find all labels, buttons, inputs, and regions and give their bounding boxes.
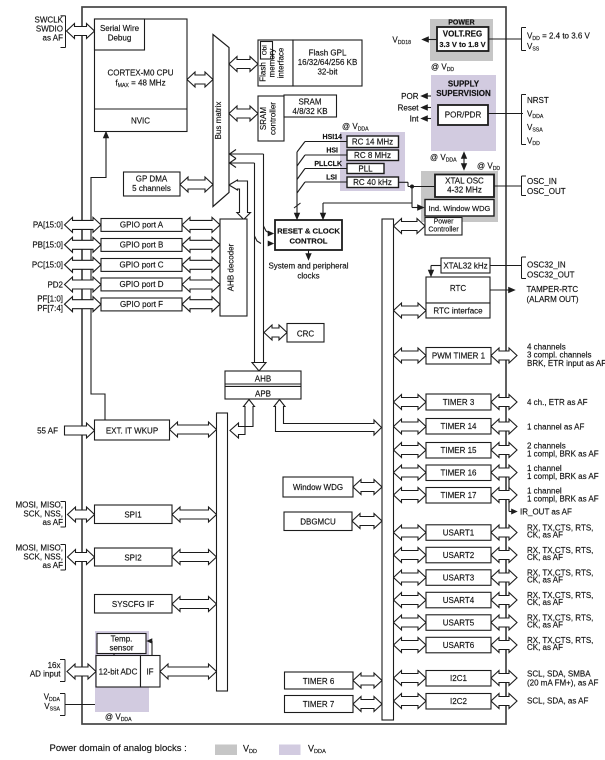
svg-text:SRAM: SRAM [259, 107, 268, 130]
svg-text:Int: Int [410, 114, 420, 123]
svg-text:as AF: as AF [43, 518, 64, 527]
svg-text:IF: IF [146, 667, 153, 676]
svg-text:4 ch., ETR as AF: 4 ch., ETR as AF [527, 398, 588, 407]
svg-text:CK, as AF: CK, as AF [527, 553, 563, 562]
svg-text:XTAL32 kHz: XTAL32 kHz [443, 262, 487, 271]
svg-text:System and peripheral: System and peripheral [268, 261, 348, 270]
svg-text:SYSCFG IF: SYSCFG IF [112, 600, 154, 609]
svg-text:1 compl, BRK as AF: 1 compl, BRK as AF [527, 495, 599, 504]
svg-text:Flash GPL: Flash GPL [309, 48, 347, 57]
svg-text:CK, as AF: CK, as AF [527, 643, 563, 652]
svg-text:USART1: USART1 [443, 528, 475, 537]
svg-text:PD2: PD2 [47, 280, 63, 289]
svg-text:MOSI, MISO,: MOSI, MISO, [15, 500, 63, 509]
svg-text:NVIC: NVIC [131, 117, 150, 126]
svg-text:Serial Wire: Serial Wire [100, 24, 140, 33]
svg-text:USART2: USART2 [443, 551, 475, 560]
svg-text:OSC_IN: OSC_IN [527, 177, 557, 186]
svg-text:PC[15:0]: PC[15:0] [32, 261, 63, 270]
svg-text:AHB: AHB [255, 375, 271, 384]
svg-text:POWER: POWER [448, 20, 474, 27]
svg-text:I2C2: I2C2 [450, 697, 467, 706]
svg-text:Debug: Debug [108, 34, 132, 43]
svg-text:USART5: USART5 [443, 618, 475, 627]
svg-text:as AF: as AF [43, 34, 64, 43]
svg-text:MOSI, MISO,: MOSI, MISO, [15, 543, 63, 552]
svg-text:CORTEX-M0 CPU: CORTEX-M0 CPU [107, 69, 173, 78]
svg-text:GP DMA: GP DMA [136, 175, 168, 184]
svg-text:clocks: clocks [297, 271, 319, 280]
svg-text:controller: controller [269, 102, 278, 135]
svg-text:RC 14 MHz: RC 14 MHz [352, 138, 393, 147]
svg-text:USART3: USART3 [443, 573, 475, 582]
svg-text:3.3 V to 1.8 V: 3.3 V to 1.8 V [439, 40, 485, 49]
svg-text:PF[7:4]: PF[7:4] [37, 304, 63, 313]
svg-text:Window WDG: Window WDG [293, 483, 343, 492]
svg-text:TIMER 6: TIMER 6 [303, 677, 335, 686]
svg-text:5 channels: 5 channels [132, 184, 171, 193]
svg-text:Controller: Controller [428, 227, 459, 234]
svg-text:Flash: Flash [259, 62, 268, 82]
svg-text:4/8/32 KB: 4/8/32 KB [292, 107, 327, 116]
svg-text:CK, as AF: CK, as AF [527, 598, 563, 607]
svg-text:GPIO port A: GPIO port A [120, 221, 164, 230]
svg-text:(ALARM OUT): (ALARM OUT) [527, 295, 579, 304]
svg-text:AD input: AD input [30, 669, 61, 678]
svg-text:LSI: LSI [326, 175, 337, 182]
svg-text:SWCLK: SWCLK [35, 16, 64, 25]
svg-text:POR/PDR: POR/PDR [445, 110, 482, 119]
svg-text:12-bit ADC: 12-bit ADC [99, 667, 138, 676]
svg-text:RESET & CLOCK: RESET & CLOCK [277, 227, 340, 236]
svg-text:BRK, ETR input as AF: BRK, ETR input as AF [527, 359, 605, 368]
svg-text:sensor: sensor [109, 644, 133, 653]
svg-text:SUPERVISION: SUPERVISION [436, 89, 491, 98]
svg-text:PB[15:0]: PB[15:0] [32, 241, 63, 250]
svg-text:SPI1: SPI1 [124, 511, 142, 520]
svg-text:SRAM: SRAM [298, 98, 321, 107]
svg-text:CONTROL: CONTROL [289, 237, 327, 246]
svg-text:1 compl, BRK as AF: 1 compl, BRK as AF [527, 472, 599, 481]
svg-text:SCK, NSS,: SCK, NSS, [23, 552, 63, 561]
svg-text:GPIO port D: GPIO port D [119, 280, 163, 289]
svg-text:RC 8 MHz: RC 8 MHz [354, 151, 391, 160]
svg-text:SUPPLY: SUPPLY [448, 80, 480, 89]
svg-text:OSC32_IN: OSC32_IN [527, 260, 566, 269]
svg-text:PF[1:0]: PF[1:0] [37, 295, 63, 304]
svg-text:GPIO port C: GPIO port C [119, 261, 163, 270]
svg-text:IR_OUT as AF: IR_OUT as AF [520, 508, 572, 517]
svg-text:TIMER 7: TIMER 7 [303, 700, 335, 709]
svg-text:TIMER 17: TIMER 17 [440, 491, 477, 500]
svg-text:DBGMCU: DBGMCU [300, 518, 336, 527]
svg-text:CK, as AF: CK, as AF [527, 621, 563, 630]
svg-text:RTC interface: RTC interface [433, 307, 483, 316]
svg-text:USART6: USART6 [443, 641, 475, 650]
svg-text:OSC_OUT: OSC_OUT [527, 187, 566, 196]
svg-text:HSI: HSI [326, 148, 338, 155]
svg-text:PWM TIMER 1: PWM TIMER 1 [432, 352, 486, 361]
svg-text:I2C1: I2C1 [450, 674, 467, 683]
svg-text:32-bit: 32-bit [317, 67, 338, 76]
svg-text:4-32 MHz: 4-32 MHz [447, 186, 482, 195]
svg-text:PA[15:0]: PA[15:0] [33, 221, 63, 230]
svg-text:TAMPER-RTC: TAMPER-RTC [527, 285, 579, 294]
svg-text:1 channel as AF: 1 channel as AF [527, 423, 584, 432]
svg-text:NRST: NRST [527, 96, 549, 105]
svg-text:SWDIO: SWDIO [36, 25, 63, 34]
svg-text:Ind. Window WDG: Ind. Window WDG [429, 204, 491, 213]
svg-text:Reset: Reset [398, 103, 420, 112]
svg-text:1 compl, BRK as AF: 1 compl, BRK as AF [527, 450, 599, 459]
svg-text:XTAL OSC: XTAL OSC [445, 177, 484, 186]
svg-text:as AF: as AF [43, 561, 64, 570]
svg-text:CK, as AF: CK, as AF [527, 531, 563, 540]
svg-text:TIMER 15: TIMER 15 [440, 446, 477, 455]
svg-text:VOLT.REG: VOLT.REG [443, 30, 482, 39]
svg-text:CK, as AF: CK, as AF [527, 576, 563, 585]
svg-text:GPIO port F: GPIO port F [120, 300, 163, 309]
svg-text:Temp.: Temp. [111, 635, 133, 644]
svg-text:EXT. IT WKUP: EXT. IT WKUP [106, 427, 158, 436]
svg-text:Bus matrix: Bus matrix [214, 102, 223, 140]
svg-text:OSC32_OUT: OSC32_OUT [527, 270, 575, 279]
svg-text:RTC: RTC [450, 284, 467, 293]
svg-text:PLLCLK: PLLCLK [314, 161, 342, 168]
svg-text:TIMER 16: TIMER 16 [440, 469, 477, 478]
svg-text:SCK, NSS,: SCK, NSS, [23, 509, 63, 518]
svg-text:CRC: CRC [297, 329, 315, 338]
svg-text:memory: memory [268, 49, 277, 78]
svg-text:55 AF: 55 AF [37, 426, 58, 435]
svg-text:POR: POR [401, 92, 419, 101]
svg-text:(20 mA FM+), as AF: (20 mA FM+), as AF [527, 679, 598, 688]
svg-text:SCL, SDA, SMBA: SCL, SDA, SMBA [527, 670, 591, 679]
svg-text:GPIO port B: GPIO port B [120, 241, 164, 250]
svg-text:AHB decoder: AHB decoder [227, 243, 236, 291]
svg-text:PLL: PLL [358, 164, 373, 173]
svg-text:interface: interface [277, 47, 286, 78]
svg-text:SCL, SDA, as AF: SCL, SDA, as AF [527, 697, 588, 706]
svg-text:HSI14: HSI14 [323, 134, 343, 141]
svg-text:APB: APB [255, 389, 271, 398]
svg-text:Power: Power [434, 219, 455, 226]
svg-text:Power domain of analog blocks: Power domain of analog blocks : [50, 743, 187, 754]
svg-text:TIMER 14: TIMER 14 [440, 422, 477, 431]
svg-text:16/32/64/256 KB: 16/32/64/256 KB [298, 58, 358, 67]
svg-text:RC 40 kHz: RC 40 kHz [353, 178, 392, 187]
svg-text:SPI2: SPI2 [124, 554, 142, 563]
svg-text:USART4: USART4 [443, 596, 475, 605]
svg-text:TIMER 3: TIMER 3 [443, 398, 475, 407]
